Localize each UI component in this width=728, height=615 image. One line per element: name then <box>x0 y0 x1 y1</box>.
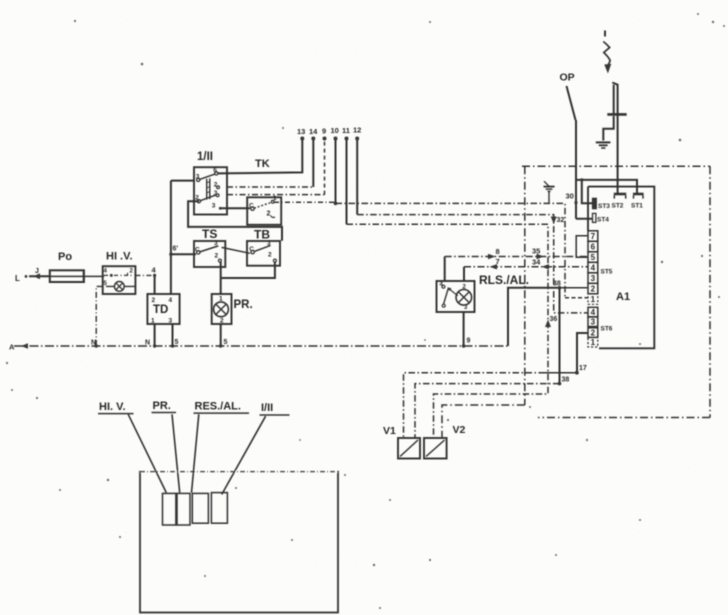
svg-text:1: 1 <box>591 338 596 347</box>
svg-text:TK: TK <box>255 158 270 170</box>
svg-text:38: 38 <box>553 281 561 288</box>
svg-text:ST2: ST2 <box>612 203 624 210</box>
svg-text:HI .V.: HI .V. <box>106 251 133 263</box>
svg-text:36: 36 <box>550 316 558 323</box>
svg-text:4: 4 <box>591 264 596 273</box>
svg-text:14: 14 <box>309 127 318 136</box>
svg-text:A: A <box>9 343 15 352</box>
svg-text:ST1: ST1 <box>631 203 643 210</box>
svg-text:Po: Po <box>58 251 72 263</box>
svg-text:9: 9 <box>322 127 326 136</box>
svg-text:RLS./AL.: RLS./AL. <box>479 273 529 287</box>
svg-text:PR.: PR. <box>234 299 253 311</box>
svg-text:3: 3 <box>591 318 596 327</box>
svg-text:4: 4 <box>591 308 596 317</box>
svg-text:5: 5 <box>175 339 179 346</box>
svg-text:2: 2 <box>152 297 156 304</box>
svg-text:ST5: ST5 <box>601 269 613 276</box>
svg-text:6: 6 <box>213 167 217 174</box>
svg-text:I/II: I/II <box>261 402 273 414</box>
svg-text:8: 8 <box>496 247 500 256</box>
svg-text:3: 3 <box>196 174 200 181</box>
svg-text:2: 2 <box>267 211 271 218</box>
svg-text:A1: A1 <box>616 291 630 303</box>
svg-text:1: 1 <box>273 195 277 202</box>
svg-text:C: C <box>249 203 254 210</box>
svg-text:4: 4 <box>169 297 173 304</box>
svg-text:11: 11 <box>342 126 350 135</box>
svg-text:2: 2 <box>591 285 596 294</box>
svg-text:2: 2 <box>268 252 272 259</box>
svg-text:RES./AL.: RES./AL. <box>195 401 241 413</box>
svg-text:12: 12 <box>353 126 361 135</box>
svg-text:13: 13 <box>297 127 305 136</box>
svg-text:TD: TD <box>153 304 168 316</box>
svg-text:38: 38 <box>562 377 570 384</box>
svg-text:C: C <box>195 247 200 254</box>
svg-text:V1: V1 <box>383 425 396 437</box>
svg-text:3: 3 <box>214 240 218 247</box>
svg-text:ST3: ST3 <box>598 203 610 210</box>
svg-text:3: 3 <box>169 318 173 325</box>
svg-text:35: 35 <box>532 247 540 256</box>
svg-text:34: 34 <box>532 258 541 267</box>
svg-text:OP: OP <box>560 72 575 84</box>
svg-text:J: J <box>35 268 39 275</box>
svg-text:ST6: ST6 <box>601 326 613 333</box>
svg-text:HI. V.: HI. V. <box>99 401 126 413</box>
svg-text:9: 9 <box>467 338 471 345</box>
svg-text:L: L <box>15 274 20 283</box>
svg-text:V2: V2 <box>453 424 466 436</box>
svg-text:C: C <box>249 246 254 253</box>
svg-text:3: 3 <box>591 274 596 283</box>
svg-text:1: 1 <box>151 318 155 325</box>
svg-text:5: 5 <box>224 339 228 346</box>
svg-text:10: 10 <box>331 126 339 135</box>
svg-text:5: 5 <box>591 253 596 262</box>
svg-text:2: 2 <box>215 253 219 260</box>
svg-text:30: 30 <box>566 192 574 201</box>
svg-text:3: 3 <box>212 203 216 210</box>
svg-text:PR.: PR. <box>153 400 171 412</box>
svg-text:3: 3 <box>267 240 271 247</box>
svg-text:1: 1 <box>591 295 596 304</box>
svg-text:17: 17 <box>579 365 587 372</box>
svg-text:7: 7 <box>496 257 500 266</box>
svg-text:1/II: 1/II <box>197 151 213 163</box>
svg-text:7: 7 <box>591 232 596 241</box>
svg-text:32: 32 <box>557 217 565 224</box>
svg-text:2: 2 <box>591 329 596 338</box>
svg-text:TS: TS <box>202 227 217 241</box>
svg-text:2: 2 <box>220 318 224 325</box>
svg-text:6': 6' <box>173 246 179 253</box>
svg-text:ST4: ST4 <box>597 217 609 224</box>
svg-text:6: 6 <box>591 243 596 252</box>
